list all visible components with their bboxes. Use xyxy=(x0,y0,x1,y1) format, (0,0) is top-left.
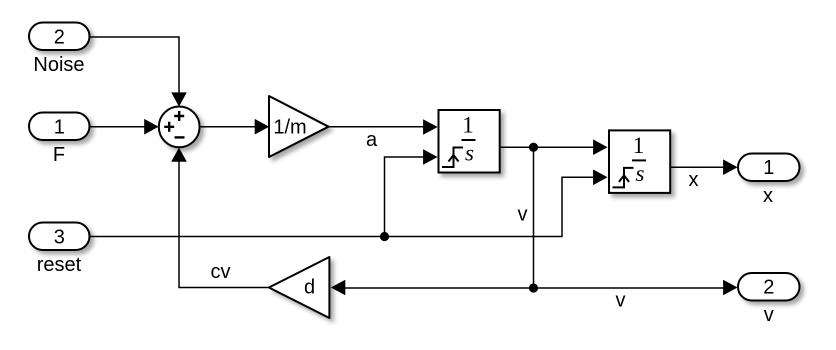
svg-text:v: v xyxy=(764,304,774,326)
svg-text:s: s xyxy=(465,141,474,166)
wire Integrator2 out to Outport x, label x xyxy=(670,159,738,191)
outport 2 v xyxy=(738,273,800,326)
gain d xyxy=(269,257,330,318)
sum sign + (left input) xyxy=(164,122,174,132)
svg-text:s: s xyxy=(636,161,645,186)
inport 2 Noise xyxy=(29,23,90,77)
svg-text:reset: reset xyxy=(37,254,82,276)
svg-text:a: a xyxy=(366,129,378,151)
node junction on v wire after Integrator1 xyxy=(529,143,538,152)
outport 1 x xyxy=(738,154,800,208)
svg-text:2: 2 xyxy=(54,27,65,49)
integrator U2 reset icon xyxy=(613,168,634,188)
wire bottom v bus to Gain d input xyxy=(331,280,534,296)
node junction on reset wire xyxy=(380,232,389,241)
wire reset branch to Integrator1 in2 xyxy=(385,149,438,236)
sum block xyxy=(159,107,200,148)
inport 1 F xyxy=(29,113,90,167)
wire v branch down to bottom bus, label v xyxy=(518,147,534,288)
sum sign + (top input) xyxy=(174,111,184,121)
svg-text:v: v xyxy=(518,204,528,226)
svg-text:2: 2 xyxy=(763,277,774,299)
svg-text:x: x xyxy=(763,185,773,207)
inport 3 reset xyxy=(29,223,90,277)
wire reset port to branches xyxy=(90,170,608,237)
svg-text:1: 1 xyxy=(633,133,645,158)
svg-text:x: x xyxy=(689,169,699,191)
wire bottom v bus to Outport v, label v xyxy=(534,280,738,312)
node junction on bottom v wire xyxy=(529,283,538,292)
integrator U1 reset icon xyxy=(442,148,463,168)
wire Noise to Sum top xyxy=(90,37,187,107)
wire F to Sum left xyxy=(90,119,159,135)
integrator U1 1/s xyxy=(439,110,500,173)
sum sign - (bottom input) xyxy=(175,136,185,138)
svg-text:F: F xyxy=(53,144,65,166)
svg-text:1: 1 xyxy=(54,117,65,139)
svg-text:Noise: Noise xyxy=(33,54,84,76)
svg-text:cv: cv xyxy=(211,261,231,283)
svg-text:1: 1 xyxy=(763,157,774,179)
svg-text:v: v xyxy=(616,290,626,312)
integrator U2 1/s xyxy=(609,130,670,193)
wire Gain 1/m to Integrator1 in1, label a xyxy=(329,119,438,151)
svg-text:d: d xyxy=(304,277,315,299)
gain 1/m xyxy=(269,96,329,157)
wire Gain d out (cv) to Sum bottom, label cv xyxy=(171,148,269,288)
wire Integrator1 out to Integrator2 in1 xyxy=(500,139,608,155)
svg-text:3: 3 xyxy=(54,227,65,249)
svg-text:1: 1 xyxy=(462,113,474,138)
svg-text:1/m: 1/m xyxy=(273,117,306,139)
wire Sum to Gain 1/m xyxy=(200,119,270,135)
